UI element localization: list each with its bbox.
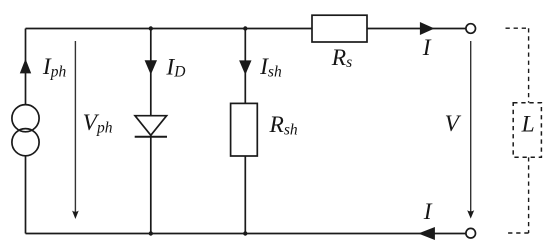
current arrow I (top, right-pointing) <box>420 22 435 35</box>
resistor R_s <box>312 15 367 42</box>
terminal node + (top) <box>466 24 476 34</box>
svg-text:Vph: Vph <box>83 110 113 136</box>
resistor R_sh <box>231 103 258 156</box>
current arrow I (bottom, left-pointing) <box>418 227 435 240</box>
wire: top bus left segment <box>26 28 313 30</box>
wire: bottom bus <box>26 233 466 235</box>
svg-text:Rsh: Rsh <box>269 112 298 138</box>
current arrow I_sh (down) <box>239 60 251 75</box>
wire: dashed right vertical lower <box>528 157 530 233</box>
current arrow I_D (down) <box>145 60 157 74</box>
wire: diode branch lower <box>150 135 152 233</box>
wire: diode branch upper <box>150 29 152 116</box>
svg-text:L: L <box>521 112 535 138</box>
current arrow I_ph (up) <box>20 59 31 74</box>
load L (dashed box) <box>513 103 541 157</box>
wire: dashed bottom horizontal to load <box>507 232 529 234</box>
wire: dashed right vertical upper <box>528 28 530 103</box>
current source I_ph (two overlapping circles) <box>12 105 39 156</box>
svg-text:I: I <box>422 35 432 61</box>
junction dot bottom shunt node <box>243 231 247 235</box>
svg-text:I: I <box>423 199 433 225</box>
svg-text:Rs: Rs <box>331 45 352 71</box>
wire: top bus right segment <box>367 28 466 30</box>
svg-text:V: V <box>445 111 462 137</box>
wire: shunt branch upper <box>244 29 246 104</box>
wire: shunt branch lower <box>244 156 246 234</box>
terminal node - (bottom) <box>466 228 476 238</box>
voltage arrow V (measurement line) <box>467 41 474 219</box>
svg-text:Iph: Iph <box>42 54 67 80</box>
diode D (triangle + cathode bar) <box>135 116 167 137</box>
svg-text:ID: ID <box>165 54 185 80</box>
junction dot bottom diode node <box>149 231 153 235</box>
junction dot top shunt node <box>243 26 247 30</box>
wire: left branch lower <box>25 156 27 234</box>
junction dot top diode node <box>149 26 153 30</box>
wire: left branch upper <box>25 29 27 105</box>
svg-text:Ish: Ish <box>259 54 282 80</box>
voltage arrow V_ph (measurement line) <box>72 41 79 219</box>
wire: dashed top horizontal to load <box>506 27 529 29</box>
